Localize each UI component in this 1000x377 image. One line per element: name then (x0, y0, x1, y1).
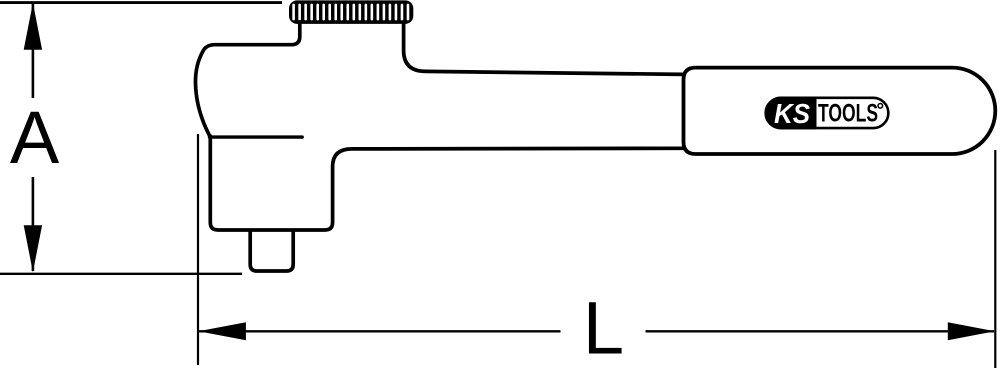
dimension L line left segment (199, 330, 561, 332)
dimension label A (10, 96, 60, 179)
head mid line (210, 135, 303, 138)
dimension label L (583, 286, 624, 369)
svg-text:TOOLS: TOOLS (818, 100, 878, 128)
dimension L left arrowhead (198, 322, 246, 340)
svg-text:KS: KS (774, 98, 810, 129)
knurled adjusting knob body (289, 0, 413, 24)
dimension A top extension line (0, 1, 282, 4)
dimension A up arrowhead (24, 3, 42, 50)
right stem and neck top line (404, 22, 684, 74)
dimension A down arrowhead (24, 225, 42, 272)
reversing block and neck bottom line (210, 136, 683, 230)
registered trademark mark (878, 104, 883, 109)
dimension A vertical line upper segment (32, 4, 35, 98)
dimension L line right segment (646, 330, 995, 332)
TOOLS lettering (818, 100, 878, 128)
KS Tools logo stadium (766, 97, 889, 130)
dimension L left extension line (197, 134, 199, 365)
dimension A bottom extension line (0, 273, 242, 275)
ratchet head outline: left stem, top line, left bulge (195, 22, 299, 137)
square drive (250, 231, 293, 271)
dimension A vertical line lower segment (32, 177, 35, 271)
dimension L right arrowhead (948, 322, 995, 340)
dimension L right extension line (994, 150, 996, 368)
svg-text:L: L (583, 286, 624, 369)
svg-text:A: A (10, 96, 60, 179)
KS script lettering (774, 98, 810, 129)
insulated handle outline (684, 68, 996, 154)
knob knurl slots (292, 4, 409, 21)
